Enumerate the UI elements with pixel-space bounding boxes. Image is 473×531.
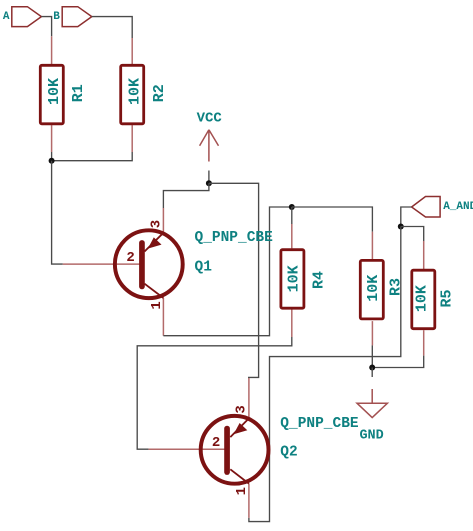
R5 pin 2 (bottom) xyxy=(423,330,425,355)
svg-text:Q_PNP_CBE: Q_PNP_CBE xyxy=(195,230,274,246)
wire J1 to Q1 base xyxy=(52,161,63,264)
svg-text:2: 2 xyxy=(212,435,220,451)
wire J5 to GND pin xyxy=(371,368,373,378)
svg-text:R3: R3 xyxy=(388,278,405,296)
R3 body xyxy=(360,260,383,319)
R4 pin 1 (top) xyxy=(291,224,293,248)
svg-text:GND: GND xyxy=(359,429,383,444)
wire R5 bottom to J5 xyxy=(372,356,424,368)
R4 body xyxy=(281,250,304,309)
svg-text:B: B xyxy=(53,11,60,23)
port A xyxy=(3,7,42,27)
junction J4 (output node) xyxy=(398,224,404,230)
svg-text:R5: R5 xyxy=(438,289,455,307)
R4 pin 2 (bottom) xyxy=(291,310,293,338)
Q2 pin 2 base lead xyxy=(149,448,229,450)
wire Q1 collector to J3 xyxy=(163,207,291,336)
R5 pin 1 (top) xyxy=(423,241,425,269)
wire J2 to Q1 emitter (pin 3) xyxy=(163,183,209,208)
R2 pin 1 (top) xyxy=(131,38,133,64)
Q1 pin 3 emitter lead xyxy=(162,208,164,233)
port B xyxy=(53,7,92,27)
svg-text:A: A xyxy=(3,11,10,23)
Q2 emitter stroke xyxy=(230,418,249,437)
Q1 emitter stroke xyxy=(145,233,164,252)
R2 pin 2 (bottom) xyxy=(131,125,133,152)
svg-text:10K: 10K xyxy=(46,78,63,105)
wire J2 to Q2 emitter (pin 3) xyxy=(209,183,259,378)
wire J3 down to R4 top xyxy=(291,207,293,224)
wire R2 bottom to node A-B xyxy=(52,152,133,161)
svg-text:R1: R1 xyxy=(70,84,87,102)
svg-text:3: 3 xyxy=(233,405,249,413)
resistor R3 xyxy=(360,232,404,346)
R3 pin 2 (bottom) xyxy=(371,321,373,345)
Q2 pin 3 emitter lead xyxy=(248,378,250,418)
resistor R4 xyxy=(281,224,328,337)
junction J3 (R4 top node) xyxy=(289,204,295,210)
junction J1 (R1/R2 node) xyxy=(49,158,55,164)
svg-text:R4: R4 xyxy=(310,271,327,289)
svg-text:Q_PNP_CBE: Q_PNP_CBE xyxy=(280,416,359,432)
Q1 circle xyxy=(115,230,183,298)
svg-text:A_AND_B: A_AND_B xyxy=(443,201,473,213)
svg-text:10K: 10K xyxy=(286,265,303,292)
wire J3 to R3 top xyxy=(292,207,373,232)
svg-text:10K: 10K xyxy=(413,285,430,312)
svg-text:1: 1 xyxy=(234,487,250,495)
Q1 pin 2 base lead xyxy=(63,263,142,265)
resistor R1 xyxy=(40,36,87,152)
svg-text:R2: R2 xyxy=(151,84,168,102)
wire R3 bottom to J5 xyxy=(371,345,373,367)
Q2 collector stroke xyxy=(230,469,249,483)
svg-text:VCC: VCC xyxy=(197,111,223,127)
R5 body xyxy=(412,270,435,329)
ground xyxy=(357,389,387,444)
resistor R2 xyxy=(121,38,168,152)
svg-text:10K: 10K xyxy=(126,78,143,105)
svg-text:2: 2 xyxy=(126,250,134,266)
wire port A_AND_B tip to J4 xyxy=(401,207,412,227)
resistor R5 xyxy=(412,241,456,356)
transistor Q1 (PNP) xyxy=(63,208,183,336)
svg-text:Q1: Q1 xyxy=(195,259,213,275)
svg-text:10K: 10K xyxy=(365,275,382,302)
wire port A to R1 top xyxy=(41,17,51,37)
wire R1 bottom to node A-B xyxy=(51,152,53,161)
Q2 base bar xyxy=(224,426,230,475)
R1 body xyxy=(40,65,63,124)
R1 pin 1 (top) xyxy=(51,36,53,64)
R1 pin 2 (bottom) xyxy=(51,125,53,152)
R3 pin 1 (top) xyxy=(371,232,373,260)
transistor Q2 (PNP) xyxy=(149,378,269,518)
wire R4 bottom to Q2 base xyxy=(137,337,292,449)
Q1 base bar xyxy=(139,240,145,289)
Q2 pin 1 collector lead xyxy=(248,484,250,518)
wire VCC pin to J2 xyxy=(208,171,210,184)
wire port B to R2 top xyxy=(92,17,132,38)
R2 body xyxy=(121,65,144,124)
Q1 emitter arrow xyxy=(148,237,162,248)
svg-text:Q2: Q2 xyxy=(280,445,297,461)
Q1 collector stroke xyxy=(145,284,164,298)
svg-text:3: 3 xyxy=(148,220,164,228)
wire J4 to R5 top xyxy=(401,227,424,242)
wire J4 to Q2 collector (pin 1) xyxy=(249,227,401,522)
port A_AND_B xyxy=(412,197,473,218)
svg-text:1: 1 xyxy=(149,301,165,309)
supply symbol VCC xyxy=(197,111,223,162)
junction J2 (VCC net) xyxy=(206,180,212,186)
junction J5 (GND node) xyxy=(369,365,375,371)
Q2 circle xyxy=(201,416,269,484)
Q1 pin 1 collector lead xyxy=(162,298,164,336)
Q2 emitter arrow xyxy=(234,423,248,434)
